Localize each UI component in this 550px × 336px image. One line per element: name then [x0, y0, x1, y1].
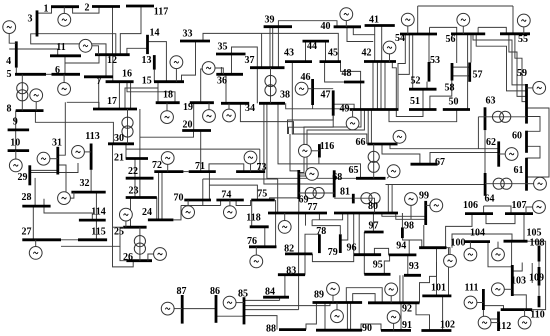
wire 74loop2	[209, 185, 257, 200]
svg-text:55: 55	[518, 34, 528, 45]
wire 116-d	[318, 158, 320, 164]
wire 27-115	[61, 239, 78, 241]
wire 54-55b	[512, 6, 514, 34]
bus 109	[538, 267, 541, 286]
svg-text:116: 116	[320, 141, 334, 152]
wire 17-18	[125, 88, 158, 109]
wire 59-61L	[527, 108, 550, 177]
generator G107	[526, 201, 545, 214]
wire 71-73	[209, 164, 244, 172]
svg-text:21: 21	[114, 152, 124, 163]
wire 37-39a	[269, 27, 271, 67]
svg-text:68: 68	[332, 172, 342, 183]
bus 93	[404, 274, 421, 277]
wire 42-51w	[392, 62, 423, 117]
wire 111-112	[483, 310, 498, 319]
svg-text:71: 71	[195, 161, 205, 172]
bus 44	[303, 40, 330, 43]
wire 35-37	[232, 47, 258, 68]
wire 54-52w	[412, 34, 414, 89]
wire 8-30	[35, 111, 113, 144]
svg-text:34: 34	[245, 103, 255, 114]
generator G111	[464, 296, 483, 309]
wire 104-103w	[488, 242, 512, 267]
generator G56	[457, 13, 470, 34]
generator G92	[385, 283, 398, 303]
bus 32	[71, 191, 105, 194]
wire 77-82	[298, 213, 300, 254]
bus 100	[419, 246, 446, 249]
wire 40-41w	[353, 27, 374, 35]
wire 17-23	[139, 109, 141, 198]
wire 85-86	[216, 315, 244, 317]
bus 105	[504, 240, 528, 243]
wire 29-28	[34, 178, 36, 206]
wire 34-36	[225, 74, 227, 103]
svg-text:88: 88	[266, 323, 276, 334]
svg-text:58: 58	[445, 82, 455, 93]
svg-text:87: 87	[177, 286, 187, 297]
wire 106-107b	[484, 206, 511, 214]
wire 54-56b	[430, 27, 457, 34]
wire 49-69a	[299, 110, 361, 173]
generator G12	[79, 39, 98, 54]
svg-text:79: 79	[328, 247, 338, 258]
svg-text:94: 94	[396, 240, 406, 251]
wire 94-106w	[446, 214, 472, 248]
svg-text:29: 29	[18, 172, 28, 183]
bus 54	[400, 33, 437, 36]
generator G110	[518, 310, 531, 329]
wire 98-94w	[403, 238, 410, 240]
wire 100-101b	[448, 248, 450, 296]
svg-text:118: 118	[246, 212, 260, 223]
wire 92-94	[399, 275, 401, 303]
svg-text:81: 81	[340, 186, 350, 197]
wire 42-49d	[384, 62, 386, 110]
bus 21	[126, 157, 148, 160]
svg-text:112: 112	[497, 321, 511, 332]
svg-text:101: 101	[431, 282, 446, 293]
wire 38-65	[278, 103, 361, 178]
svg-text:51: 51	[410, 96, 420, 107]
wire 37-40w	[277, 27, 279, 67]
bus 47	[332, 90, 335, 115]
svg-text:53: 53	[430, 55, 440, 66]
wire 99-100	[423, 225, 425, 248]
bus 87	[181, 295, 184, 324]
wire 62-67	[430, 153, 499, 165]
wire 100-101a	[436, 248, 438, 262]
svg-text:108: 108	[530, 237, 545, 248]
svg-text:82: 82	[284, 244, 294, 255]
wire 59-60L	[527, 117, 541, 132]
bus 42	[364, 60, 396, 63]
generator G91	[387, 311, 400, 331]
svg-text:27: 27	[22, 226, 32, 237]
bus 49	[350, 108, 399, 111]
svg-text:117: 117	[154, 6, 168, 17]
svg-text:39: 39	[265, 14, 275, 25]
transformer T80-81	[353, 193, 380, 213]
transformer T68-69	[299, 187, 334, 198]
wire 80-96b	[358, 213, 360, 255]
svg-text:35: 35	[218, 41, 228, 52]
wire 118-76	[264, 227, 266, 247]
svg-text:3: 3	[28, 13, 33, 24]
bus 1	[51, 5, 79, 8]
wire 45-48	[325, 62, 344, 82]
wire 54-56	[429, 27, 431, 34]
bus 40	[334, 25, 361, 28]
wire 74u1	[181, 205, 221, 207]
wire 58-51w	[430, 81, 452, 110]
wire 21-70w	[126, 148, 260, 150]
svg-text:62: 62	[486, 137, 496, 148]
transformer T61-64	[485, 178, 526, 189]
generator G116	[299, 144, 320, 157]
bus 118	[250, 225, 269, 228]
wire 26-25w	[120, 246, 126, 260]
svg-text:97: 97	[369, 220, 379, 231]
generator G87	[161, 302, 182, 315]
wire 36-u	[220, 67, 222, 74]
svg-text:15: 15	[142, 75, 152, 86]
wire 80-96a	[353, 213, 355, 255]
svg-text:56: 56	[446, 34, 456, 45]
wire 30-21	[125, 144, 127, 159]
svg-text:92: 92	[402, 303, 412, 314]
svg-text:48: 48	[342, 68, 352, 79]
svg-text:14: 14	[150, 27, 160, 38]
generator G55	[517, 14, 530, 34]
svg-text:63: 63	[486, 96, 496, 107]
bus 101	[422, 294, 451, 297]
transformer T5-8	[17, 74, 28, 110]
svg-text:7: 7	[97, 76, 102, 87]
svg-text:18: 18	[163, 89, 173, 100]
wire 30-20	[140, 131, 194, 138]
wire 23-24	[156, 198, 158, 220]
generator G54	[401, 13, 414, 34]
wire 49-50	[389, 110, 457, 122]
wire 105-108	[528, 241, 540, 246]
svg-text:46: 46	[301, 72, 311, 83]
bus 16	[106, 80, 134, 83]
wire 32-114	[95, 192, 97, 220]
wire 29-31	[30, 169, 58, 171]
bus 97	[364, 231, 383, 234]
svg-text:16: 16	[122, 68, 132, 79]
wire 73-mid	[259, 149, 261, 171]
generator G4	[3, 21, 17, 44]
wire 66-67	[382, 144, 420, 164]
wire 109-110t	[538, 286, 540, 296]
bus 11	[50, 54, 81, 57]
generator G99	[426, 199, 443, 212]
bus 110	[538, 296, 541, 307]
generator G66	[393, 130, 406, 144]
bus 2	[92, 5, 120, 8]
svg-text:40: 40	[321, 21, 331, 32]
wire 85-89b	[244, 309, 299, 311]
wire 47-116w	[289, 116, 334, 134]
wire 52-53	[426, 82, 428, 90]
svg-text:80: 80	[368, 201, 378, 212]
wire 107-105	[523, 214, 525, 241]
bus 113	[90, 144, 93, 170]
wire 49-69b	[299, 110, 365, 177]
svg-text:77: 77	[308, 202, 318, 213]
wire 9-10	[15, 130, 17, 151]
svg-text:64: 64	[485, 193, 495, 204]
bus 57	[468, 63, 471, 82]
wire 17-31b	[67, 102, 99, 109]
bus 60	[525, 131, 528, 153]
svg-text:103: 103	[511, 275, 526, 286]
wire 56-57	[470, 34, 472, 63]
wire 34-116w	[240, 103, 293, 134]
wire 49-66a	[367, 110, 369, 145]
wire 100-104w	[452, 234, 512, 248]
svg-text:32: 32	[80, 178, 90, 189]
wire 64-80a	[387, 185, 389, 214]
wire 95-96	[363, 255, 365, 275]
generator G10	[9, 151, 22, 172]
wire 43-69	[290, 134, 299, 171]
svg-text:38: 38	[280, 89, 290, 100]
bus 106	[465, 212, 493, 215]
generator G73	[244, 151, 257, 172]
wire 110-111	[483, 306, 503, 310]
wire 30-26	[113, 144, 134, 267]
svg-text:72: 72	[152, 160, 162, 171]
bus 90	[316, 329, 362, 332]
bus 20	[182, 129, 211, 132]
wire 17-7	[98, 77, 100, 109]
wire 105-103	[511, 241, 513, 266]
generator G8	[30, 89, 43, 111]
wire 7475loop	[203, 178, 278, 180]
generator G46	[295, 82, 312, 95]
bus 104	[464, 240, 490, 243]
generator G31	[37, 152, 58, 165]
wire 12-14	[127, 48, 148, 54]
wire 75-76	[275, 200, 277, 247]
generator G74	[224, 200, 237, 219]
svg-text:109: 109	[529, 272, 544, 283]
bus 81	[352, 194, 355, 204]
svg-text:91: 91	[402, 320, 412, 331]
svg-text:93: 93	[409, 261, 419, 272]
wire 38-65b	[267, 103, 356, 178]
svg-text:110: 110	[530, 309, 544, 320]
svg-text:74: 74	[221, 190, 231, 201]
wire 83-84	[284, 275, 286, 298]
svg-text:61: 61	[514, 165, 524, 176]
svg-text:12: 12	[107, 55, 117, 66]
transformer T59-63	[478, 111, 526, 122]
generator G62	[499, 148, 518, 161]
bus 115	[78, 238, 107, 241]
bus 91	[381, 329, 411, 332]
wire 101-102	[442, 296, 444, 331]
svg-text:113: 113	[85, 131, 99, 142]
wire 106-107c	[486, 214, 515, 224]
generator G40	[340, 8, 353, 27]
wire 31-32	[58, 165, 66, 192]
bus 76	[249, 245, 277, 248]
wire 77-78b	[305, 213, 307, 226]
bus 41	[365, 24, 395, 27]
generator G104a	[464, 242, 477, 261]
bus 51	[409, 108, 437, 111]
transformer T65-66	[368, 144, 379, 178]
generator G27	[29, 240, 42, 259]
svg-text:10: 10	[10, 137, 20, 148]
wire 92-93	[402, 275, 404, 303]
wire 56-55	[477, 27, 479, 34]
generator G18	[161, 103, 174, 124]
bus 63	[484, 107, 487, 130]
wire 1-2	[73, 7, 99, 14]
svg-text:95: 95	[373, 260, 383, 271]
bus 18	[156, 101, 180, 104]
wire 14-15	[148, 42, 167, 82]
generator G65	[387, 165, 400, 179]
bus 39	[264, 25, 292, 28]
bus 3	[36, 10, 39, 36]
wire 77-79	[312, 220, 340, 235]
wire 74u1b	[173, 206, 181, 220]
wire 23-25	[130, 198, 132, 228]
generator G42	[383, 41, 396, 62]
wire 33-37	[261, 33, 263, 67]
wire 108-109	[538, 262, 540, 268]
bus 14	[146, 35, 149, 54]
wire 89-92t1	[346, 288, 382, 303]
bus 56	[451, 33, 485, 36]
wire 56-50	[467, 34, 469, 110]
svg-text:9: 9	[13, 116, 18, 127]
wire 103-109	[512, 263, 522, 272]
bus 6	[52, 73, 81, 76]
wire 65-64	[386, 184, 486, 186]
wire 54-53	[428, 34, 430, 62]
bus 98	[401, 227, 404, 238]
svg-text:28: 28	[22, 192, 32, 203]
wire 7-12	[105, 44, 107, 55]
svg-text:102: 102	[440, 319, 455, 330]
wire 12-16b	[112, 55, 114, 82]
svg-text:60: 60	[512, 130, 522, 141]
bus 62	[497, 141, 500, 166]
bus 17	[93, 108, 137, 111]
wire 46-d2	[312, 105, 314, 109]
wire 113-32	[90, 170, 92, 192]
generator G80	[405, 193, 418, 220]
transformer T37-38	[265, 68, 276, 104]
wire 103-110a	[512, 295, 526, 310]
wire 57-58b	[452, 75, 470, 77]
bus 59	[525, 84, 528, 124]
wire 8-9	[15, 111, 17, 130]
svg-text:30: 30	[114, 133, 124, 144]
bus 107	[505, 212, 533, 215]
svg-text:43: 43	[284, 47, 294, 58]
wire 33-15	[182, 41, 196, 81]
wire 89-90a	[346, 303, 348, 331]
wire 20-71	[200, 131, 202, 172]
generator G19	[203, 103, 216, 123]
bus 34	[221, 102, 249, 105]
bus 27	[22, 238, 61, 241]
svg-text:17: 17	[107, 96, 117, 107]
generator G112	[478, 316, 498, 329]
bus 77	[268, 212, 327, 215]
bus 36	[216, 73, 243, 76]
generator G6	[58, 74, 71, 95]
wire 79-80w	[340, 213, 348, 240]
svg-text:5: 5	[7, 69, 12, 80]
svg-text:54: 54	[395, 33, 405, 44]
svg-text:86: 86	[210, 286, 220, 297]
wire 85-88	[244, 316, 277, 330]
wire 89-92t2	[353, 294, 375, 303]
svg-text:37: 37	[245, 55, 255, 66]
bus 53	[428, 62, 431, 82]
generator G36	[202, 62, 223, 75]
wire 3-12a	[37, 34, 116, 55]
wire 60-61L	[527, 146, 541, 158]
wire 117-12	[120, 6, 141, 55]
wire 55-59D	[515, 34, 527, 102]
bus 38	[259, 102, 285, 105]
wire 22-23	[134, 178, 136, 197]
wire 42-49b	[376, 62, 378, 110]
svg-text:59: 59	[517, 68, 527, 79]
svg-text:49: 49	[340, 103, 350, 114]
wire 13-15	[153, 70, 155, 82]
svg-text:89: 89	[314, 289, 324, 300]
wire 6-11	[64, 56, 66, 75]
bus 9	[8, 128, 30, 131]
bus 94	[389, 253, 417, 256]
wire 78-83w	[305, 234, 319, 275]
wire 54-55a	[417, 6, 419, 34]
wire 56-59A	[473, 34, 527, 85]
bus 22	[126, 177, 154, 180]
wire 92-100w	[420, 262, 437, 303]
bus 114	[79, 219, 106, 222]
bus 103	[511, 265, 514, 296]
svg-text:76: 76	[247, 236, 257, 247]
wire 75-118	[251, 200, 253, 227]
bus 108	[538, 246, 541, 262]
bus 111	[482, 289, 485, 310]
svg-text:44: 44	[307, 41, 317, 52]
bus 65	[356, 177, 386, 180]
wire 16-17a	[118, 82, 120, 109]
wire 3-12b	[31, 34, 106, 77]
svg-text:83: 83	[286, 265, 296, 276]
svg-text:98: 98	[404, 220, 414, 231]
generator G69	[299, 168, 319, 181]
generator G77	[278, 213, 291, 233]
generator G1	[58, 7, 71, 27]
svg-text:45: 45	[328, 47, 338, 58]
svg-text:22: 22	[128, 166, 138, 177]
